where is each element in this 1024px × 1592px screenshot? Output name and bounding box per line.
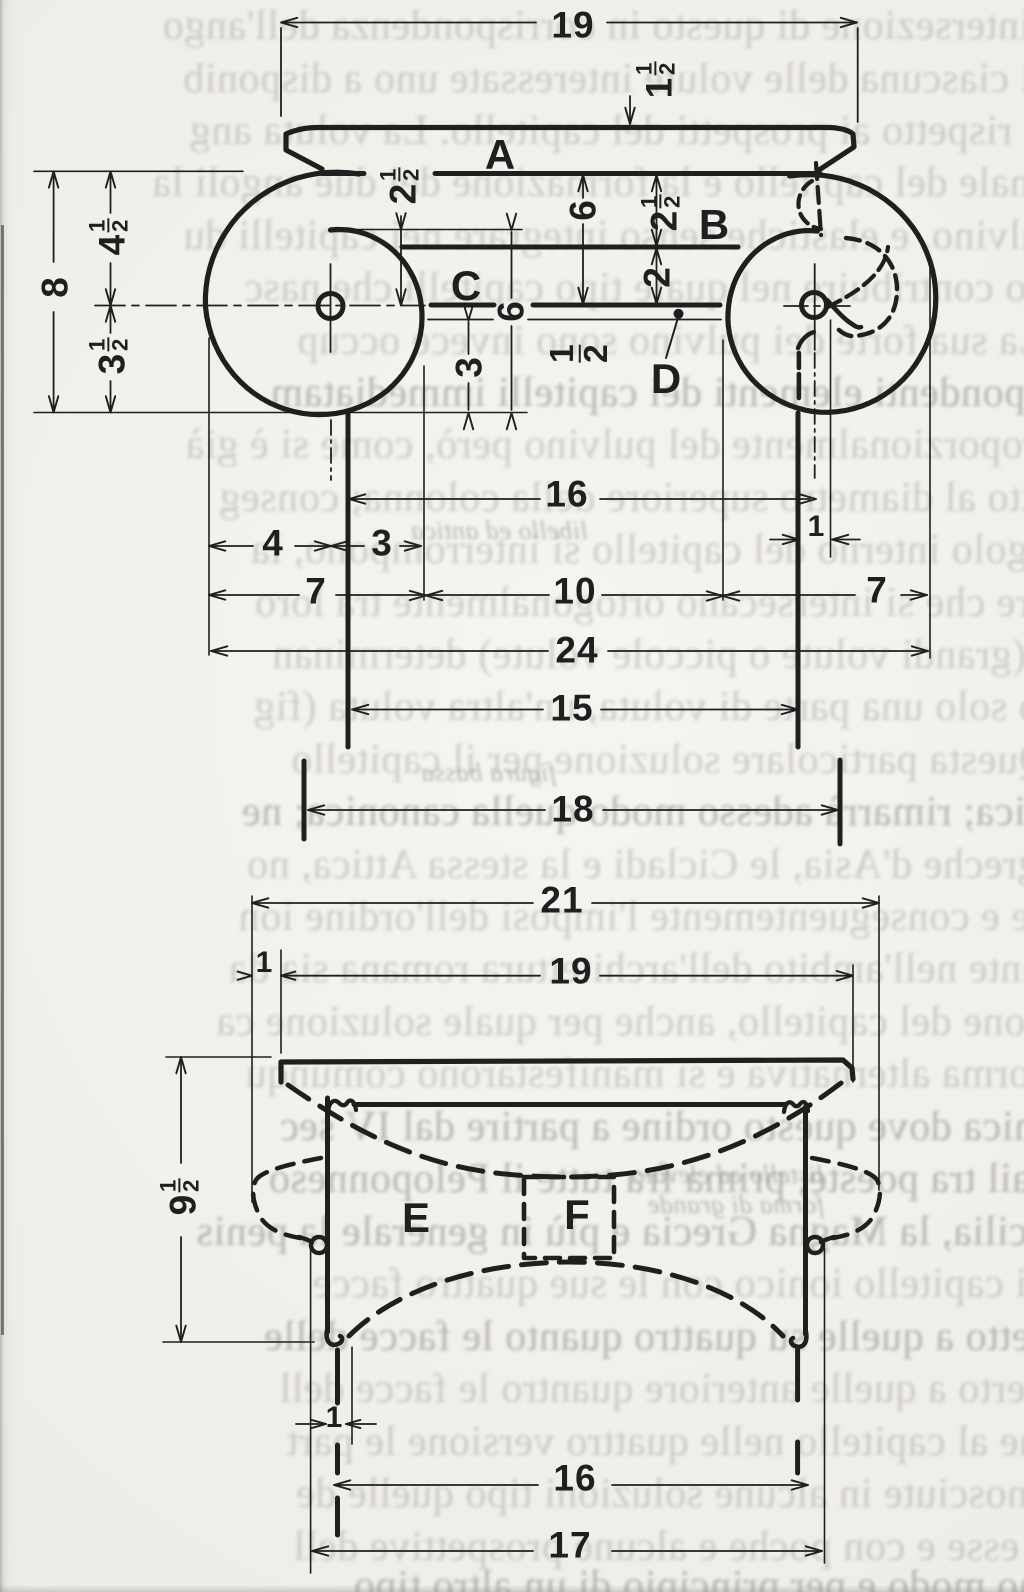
abacus top line (side view)	[281, 1060, 853, 1082]
line C (astragal)	[431, 303, 494, 308]
label 24	[555, 632, 598, 669]
dimension 21	[254, 902, 533, 904]
left eye vertical centerline	[330, 264, 332, 352]
bottom reference line (volute bottom)	[34, 412, 527, 414]
label 1/2 rotated	[548, 344, 612, 365]
left ear	[311, 1237, 327, 1253]
extension line right (19)	[857, 28, 859, 122]
dimension 19 (abacus top width)	[283, 22, 536, 24]
dimension 15	[354, 709, 543, 711]
double arrow at centerline (4.5/3.5)	[106, 306, 115, 322]
left bulge solid end	[299, 1237, 312, 1242]
left bottom curl	[327, 1330, 342, 1345]
lower dashed curve (bolster belly)	[349, 1262, 783, 1336]
thin reference x=723	[722, 340, 724, 600]
label 3 1/2 rotated	[87, 338, 130, 375]
tick mark right (18)	[838, 760, 843, 844]
dashed hidden edge below left bolster	[335, 1350, 340, 1535]
dimension 1 (upper)	[770, 539, 797, 541]
right eye vertical centerline	[814, 264, 816, 350]
thin reference x=830	[830, 320, 832, 557]
left bolster edge (vertical)	[325, 1098, 330, 1332]
label A	[485, 134, 515, 176]
dimension 2 right	[656, 249, 658, 303]
extension line x=879	[878, 896, 880, 1190]
label C	[451, 265, 481, 307]
label 16 chain	[545, 476, 588, 513]
right bulge dashed arc	[812, 1158, 880, 1238]
label 2 1/2 right rotated	[639, 195, 682, 232]
dimension 1 (bottom drawing top left)	[238, 972, 252, 980]
leader line and dot for D	[674, 309, 683, 318]
dashed inner spiral right volute	[835, 238, 897, 336]
left volute eye	[318, 294, 343, 319]
dashed hook top of right volute	[798, 181, 821, 229]
label 6 (A-C) rotated	[565, 199, 602, 221]
left bulge dashed arc	[253, 1158, 321, 1238]
label E	[402, 1197, 430, 1239]
label 19 top	[551, 7, 594, 44]
dashed diagonal from eye	[828, 247, 888, 307]
label 17	[548, 1527, 591, 1564]
right bolster edge (vertical)	[803, 1107, 808, 1334]
label 1 (bottom)	[326, 1403, 343, 1433]
line B (echinus)	[402, 245, 738, 250]
dashed channel edge below right volute	[797, 353, 802, 398]
thin reference x=209	[208, 338, 210, 655]
thin reference x=424	[423, 366, 425, 600]
thin reference x=930	[929, 265, 931, 658]
dimension 9 1/2	[166, 1056, 271, 1058]
solid curve joining channel to centerline	[798, 332, 814, 348]
right volute eye	[802, 293, 827, 318]
solid hook under right eye	[827, 300, 861, 327]
label 9 1/2 rotated	[158, 1179, 201, 1216]
label B	[699, 204, 729, 246]
label 21	[540, 882, 583, 919]
extension line left (19)	[280, 28, 282, 116]
right bulge solid end	[821, 1237, 834, 1242]
label 19 bottom	[549, 953, 592, 990]
label 4	[262, 525, 284, 562]
dimension 6 left	[511, 232, 513, 298]
dimension 16 (bottom)	[336, 1484, 538, 1486]
dimension 2 1/2 left	[400, 216, 402, 304]
reference line at volute spiral tops	[335, 229, 522, 231]
dimension chain 4 / 3	[209, 545, 253, 547]
dimension 2 1/2 right	[656, 176, 658, 245]
label 6 rotated	[493, 300, 530, 322]
label F	[564, 1194, 590, 1236]
label 1 (16-15)	[808, 512, 825, 542]
upper dashed curve (echinus profile)	[288, 1077, 849, 1177]
arrow down at abacus top (1 1/2)	[625, 108, 634, 124]
dimension 17	[314, 1550, 533, 1552]
right volute spiral	[728, 175, 936, 413]
dimension 8	[53, 174, 55, 262]
label 16 bottom	[553, 1460, 596, 1497]
left volute horizontal centerline	[95, 305, 425, 307]
label 3 rotated	[451, 356, 488, 378]
heavy vertical below left volute	[346, 414, 351, 747]
left centerline below volute	[330, 420, 332, 480]
tick mark left (18)	[302, 761, 307, 839]
extension line x=281 (bottom)	[280, 950, 282, 1053]
right bottom curl	[791, 1332, 806, 1347]
dimension 18	[310, 809, 545, 811]
dashed channel line top right volute	[816, 163, 821, 235]
label D	[651, 358, 681, 400]
dimension 3	[468, 322, 470, 354]
dimension 3 1/2	[110, 307, 112, 333]
label 8 rotated	[37, 276, 74, 298]
right volute horizontal centerline	[784, 305, 851, 307]
top reference line left	[34, 170, 243, 172]
thin line below C	[428, 319, 493, 321]
label 1 1/2 rotated (abacus)	[634, 62, 677, 99]
extension line x=853	[852, 965, 854, 1082]
dimension 19 (bottom drawing)	[281, 975, 540, 977]
line A (abacus bottom)	[322, 171, 364, 176]
dimension chain 7 / 10 / 7	[209, 594, 299, 596]
dashed hidden edge below right bolster	[795, 1350, 800, 1473]
label 10	[553, 573, 596, 610]
abacus lower line (side view) with end curls	[328, 1101, 356, 1112]
label 4 1/2 rotated	[87, 219, 130, 256]
extension line x=252	[251, 896, 253, 1202]
left volute spiral	[205, 172, 422, 414]
heavy vertical below right volute	[796, 413, 801, 747]
thin extension right x=824	[824, 1248, 826, 1563]
label 7 right	[866, 572, 888, 609]
dimension 4 1/2	[110, 174, 112, 213]
gutter shadow left edge	[1, 225, 4, 1335]
label 15	[550, 690, 593, 727]
dimension 1 (bottom left)	[296, 1423, 322, 1425]
dimension 24	[211, 650, 548, 652]
right centerline below volute	[814, 353, 816, 478]
abacus profile (top)	[286, 128, 854, 171]
label 18	[551, 791, 594, 828]
right ear	[807, 1237, 823, 1253]
label 7 left	[305, 573, 327, 610]
label 3 chain	[371, 525, 393, 562]
dimension 16 (chain)	[350, 498, 540, 500]
thin extension left x=310	[310, 1248, 312, 1573]
label 2 1/2 left rotated	[378, 168, 421, 205]
balteus dashed rectangle (F)	[524, 1177, 614, 1258]
thin extension x=352	[351, 1347, 353, 1444]
label 2 rotated	[639, 266, 676, 288]
dimension 6 (A to C)	[582, 176, 584, 198]
label 1 (19 offset)	[256, 948, 273, 978]
